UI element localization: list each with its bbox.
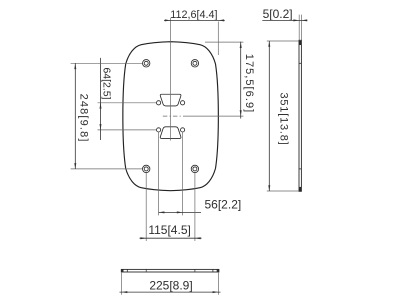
hole bottom-right <box>191 165 198 172</box>
svg-text:248[9.8]: 248[9.8] <box>78 94 90 143</box>
dim 64 slots <box>98 58 157 140</box>
dim 112,6 top <box>164 9 225 55</box>
hole top-right <box>191 60 198 67</box>
dim 56 <box>159 198 242 214</box>
svg-text:115[4.5]: 115[4.5] <box>148 223 190 237</box>
upper keyhole slot <box>157 94 185 106</box>
dim 351 side height <box>267 41 299 191</box>
dim 175,5 <box>205 42 255 119</box>
dim 248 holes vertical <box>71 63 143 169</box>
dim 225 bottom width <box>120 273 221 295</box>
dim 115 <box>140 223 202 239</box>
svg-text:351[13.8]: 351[13.8] <box>278 92 290 145</box>
ext lines slots down to 56 dim <box>158 132 160 215</box>
svg-text:225[8.9]: 225[8.9] <box>149 278 192 292</box>
svg-text:112,6[4.4]: 112,6[4.4] <box>170 9 217 21</box>
svg-text:64[2.5]: 64[2.5] <box>101 67 113 99</box>
ext line centerline to 175.5 dim <box>184 115 244 117</box>
hole bottom-left <box>143 165 150 172</box>
lower keyhole slot <box>157 127 185 139</box>
dim 5 side thickness <box>262 7 307 40</box>
ext lines holes down to 115 dim <box>145 173 147 241</box>
vertical centerline / 112.6 left extension <box>170 18 172 141</box>
bottom view <box>121 269 219 272</box>
plate front view outline <box>123 42 219 191</box>
svg-text:56[2.2]: 56[2.2] <box>205 198 242 212</box>
hole top-left <box>143 60 150 67</box>
horizontal dash-dot centerline <box>163 115 184 117</box>
svg-text:5[0.2]: 5[0.2] <box>263 7 293 21</box>
side view <box>299 40 301 191</box>
svg-text:175,5[6.9]: 175,5[6.9] <box>243 54 255 113</box>
